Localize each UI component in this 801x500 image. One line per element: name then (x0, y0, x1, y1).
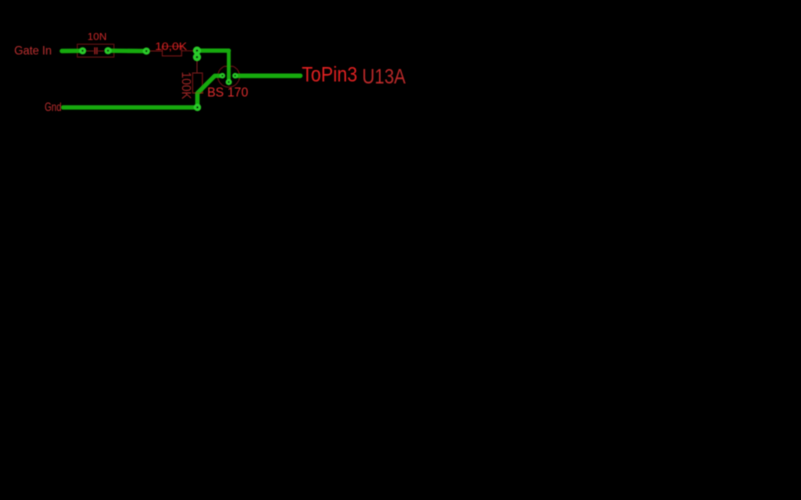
svg-text:Gate In: Gate In (14, 46, 52, 58)
wire capacitor to resistor 10,0K (108, 49, 146, 54)
svg-text:Gnd: Gnd (45, 100, 62, 114)
wire gate net: junction to transistor gate (197, 48, 229, 52)
resistor 10,0K outline (162, 46, 181, 56)
capacitor 10N symbol and leads (86, 47, 104, 54)
pad resistor 10,0K pin 1 (143, 48, 150, 55)
wire Gnd (63, 105, 197, 109)
pad capacitor pin 1 (79, 47, 86, 54)
resistor 100K lead bottom (196, 93, 198, 105)
pad junction upper (193, 47, 201, 55)
svg-text:ToPin3: ToPin3 (302, 63, 358, 87)
svg-text:10,0K: 10,0K (155, 41, 187, 53)
pad transistor drain (232, 73, 238, 79)
wire source to gnd (197, 76, 222, 108)
capacitor 10N outline (77, 44, 114, 57)
pad transistor source (220, 73, 226, 79)
resistor 100K outline (193, 73, 203, 93)
wire gate net vertical drop (227, 51, 231, 82)
svg-text:100K: 100K (179, 72, 194, 100)
pad junction lower (100K top) (193, 53, 201, 61)
pad transistor gate (226, 79, 232, 85)
svg-text:U13A: U13A (362, 66, 406, 89)
pad capacitor pin 2 (104, 47, 111, 54)
resistor 10,0K leads (146, 50, 197, 52)
wire Gate In stub (62, 49, 83, 54)
wire drain to ToPin3 (235, 74, 300, 79)
resistor 100K lead top (196, 57, 198, 73)
svg-text:10N: 10N (87, 32, 106, 43)
svg-text:BS 170: BS 170 (207, 84, 248, 99)
pad Gnd junction (194, 104, 201, 111)
transistor BS 170 outline TO-92 (218, 66, 240, 87)
resistor 100K bottom edge over trace (195, 92, 204, 94)
